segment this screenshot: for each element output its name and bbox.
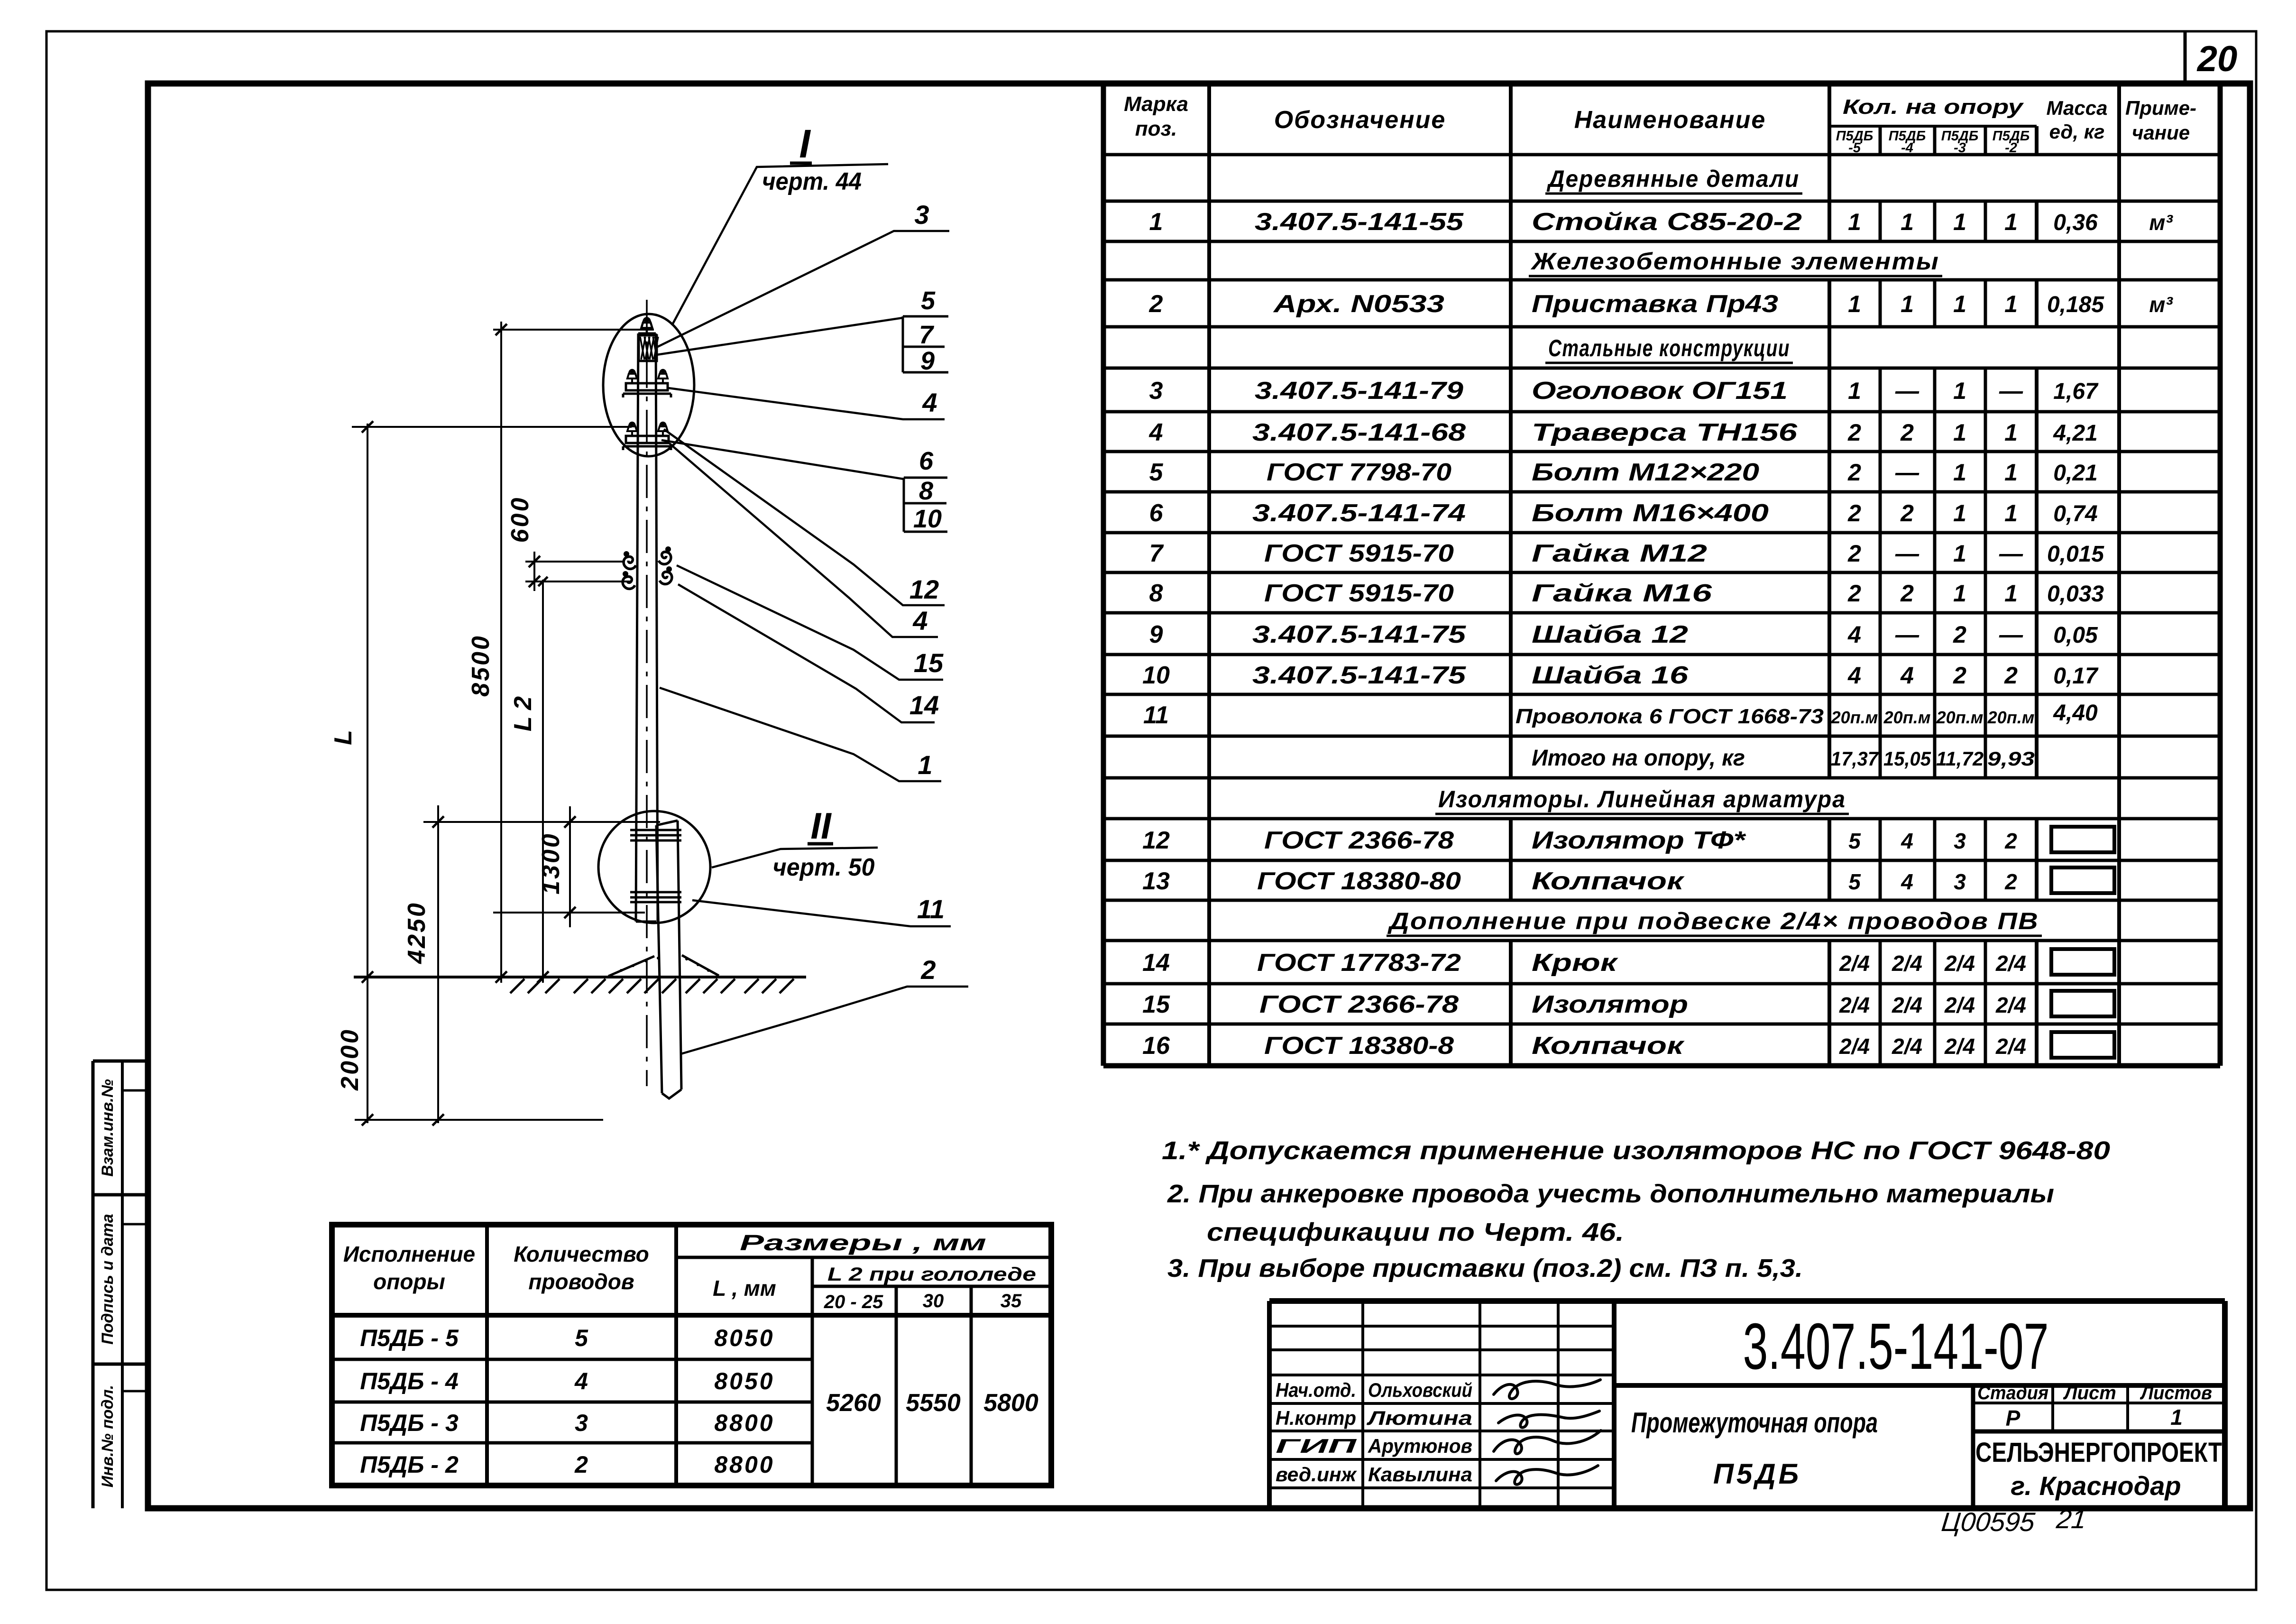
spec table rows 12-16 with blank mass boxes xyxy=(1142,827,2114,1060)
svg-text:5: 5 xyxy=(575,1325,588,1351)
svg-text:35: 35 xyxy=(1001,1291,1022,1311)
svg-text:Лист: Лист xyxy=(2063,1383,2116,1403)
dim text 8500 xyxy=(467,634,495,697)
svg-text:3.407.5-141-07: 3.407.5-141-07 xyxy=(1743,1310,2049,1383)
svg-text:9: 9 xyxy=(1149,621,1163,648)
svg-text:12: 12 xyxy=(1142,827,1170,854)
svg-text:4: 4 xyxy=(1901,829,1913,853)
svg-text:Гайка М12: Гайка М12 xyxy=(1532,540,1707,567)
dim vertical L / 2000 line xyxy=(362,421,373,1126)
svg-text:2: 2 xyxy=(920,955,936,985)
svg-text:1: 1 xyxy=(2004,580,2018,607)
svg-text:Стадия: Стадия xyxy=(1977,1383,2048,1403)
svg-text:Наименование: Наименование xyxy=(1574,106,1766,134)
page number box 20 xyxy=(2185,31,2237,83)
svg-text:Исполнение: Исполнение xyxy=(343,1242,475,1266)
svg-text:8050: 8050 xyxy=(714,1325,774,1351)
svg-text:Колпачок: Колпачок xyxy=(1532,867,1685,895)
svg-text:Траверса ТН156: Траверса ТН156 xyxy=(1532,419,1798,446)
svg-text:L: L xyxy=(330,730,357,745)
svg-text:2: 2 xyxy=(1953,621,1966,648)
крюк с изолятором (верхний правый) poz.14/15 xyxy=(659,546,671,564)
label 2 приставка xyxy=(681,955,968,1054)
svg-text:—: — xyxy=(1895,540,1919,567)
svg-text:8050: 8050 xyxy=(714,1368,774,1394)
svg-text:1: 1 xyxy=(1953,378,1966,404)
svg-text:Стойка С85-20-2: Стойка С85-20-2 xyxy=(1532,208,1802,236)
svg-text:12: 12 xyxy=(909,574,939,604)
svg-text:20п.м: 20п.м xyxy=(1987,708,2035,727)
svg-text:Изолятор: Изолятор xyxy=(1532,991,1688,1018)
svg-text:8: 8 xyxy=(1149,580,1163,607)
svg-text:2: 2 xyxy=(1953,662,1966,689)
СЕЛЬЭНЕРГОПРОЕКТ г. Краснодар xyxy=(1975,1437,2222,1501)
dim vertical L2 xyxy=(537,577,549,983)
svg-text:2/4: 2/4 xyxy=(1944,1034,1975,1059)
svg-text:Болт М16×400: Болт М16×400 xyxy=(1532,499,1769,527)
svg-text:ГОСТ 5915-70: ГОСТ 5915-70 xyxy=(1264,540,1454,567)
svg-text:5: 5 xyxy=(1848,869,1861,894)
pole centerline xyxy=(646,300,648,1086)
svg-text:L 2: L 2 xyxy=(509,696,537,731)
extension line lower hooks xyxy=(525,581,631,582)
svg-text:2/4: 2/4 xyxy=(1839,993,1870,1017)
svg-text:3: 3 xyxy=(575,1410,588,1436)
label 4 траверса нижняя xyxy=(670,443,938,637)
svg-text:2: 2 xyxy=(1900,580,1914,607)
svg-text:Приме-: Приме- xyxy=(2125,97,2196,119)
svg-text:Нач.отд.: Нач.отд. xyxy=(1276,1379,1356,1401)
svg-text:4: 4 xyxy=(1847,621,1861,648)
svg-text:Размеры , мм: Размеры , мм xyxy=(740,1230,986,1255)
svg-text:13: 13 xyxy=(1142,867,1170,895)
svg-text:4: 4 xyxy=(574,1368,588,1394)
svg-text:1: 1 xyxy=(2004,459,2018,486)
svg-text:7: 7 xyxy=(1149,540,1164,567)
label 14 крюк xyxy=(678,584,939,722)
svg-text:2/4: 2/4 xyxy=(1944,951,1975,976)
svg-text:14: 14 xyxy=(1142,949,1170,977)
extension line lower bandage xyxy=(493,912,645,913)
svg-text:9: 9 xyxy=(920,347,935,375)
svg-text:1: 1 xyxy=(2004,500,2018,526)
small table Исполнение опоры xyxy=(332,1225,1051,1486)
изоляторы на верхней траверсе poz.12 xyxy=(627,369,668,384)
document number 3.407.5-141-07 xyxy=(1614,1310,2225,1385)
svg-text:проводов: проводов xyxy=(528,1269,634,1294)
svg-text:5800: 5800 xyxy=(983,1389,1038,1417)
svg-text:спецификации по Черт. 46.: спецификации по Черт. 46. xyxy=(1207,1218,1624,1246)
detail oval I around pole top xyxy=(603,314,694,456)
svg-text:8: 8 xyxy=(919,477,933,505)
ground line xyxy=(354,976,806,978)
svg-text:черт. 44: черт. 44 xyxy=(762,168,862,195)
svg-text:14: 14 xyxy=(909,690,939,720)
svg-text:г. Краснодар: г. Краснодар xyxy=(2011,1471,2181,1501)
траверса ТН156 верхняя poz.4 xyxy=(623,383,671,397)
svg-text:Арутюнов: Арутюнов xyxy=(1368,1435,1472,1457)
svg-text:2: 2 xyxy=(1900,500,1914,526)
svg-text:поз.: поз. xyxy=(1135,117,1177,140)
svg-text:2/4: 2/4 xyxy=(1995,993,2026,1017)
svg-text:II: II xyxy=(810,805,832,847)
extension line pole top xyxy=(493,329,654,331)
svg-text:ГОСТ 2366-78: ГОСТ 2366-78 xyxy=(1259,991,1459,1018)
бандажи из проволоки poz.11 xyxy=(630,830,681,902)
svg-text:1: 1 xyxy=(1953,291,1966,317)
dim text L xyxy=(330,730,357,745)
left stamp column boxes xyxy=(93,1061,148,1508)
svg-text:Инв.№ подл.: Инв.№ подл. xyxy=(99,1385,117,1488)
svg-text:Гайка М16: Гайка М16 xyxy=(1532,580,1713,607)
svg-text:600: 600 xyxy=(506,496,534,543)
svg-text:1: 1 xyxy=(1848,209,1861,235)
svg-text:2000: 2000 xyxy=(336,1028,364,1091)
dim vertical 4250 xyxy=(432,805,444,1126)
svg-text:10: 10 xyxy=(913,505,942,533)
spec итого row xyxy=(1532,746,2035,771)
svg-text:м³: м³ xyxy=(2149,210,2173,235)
title block outline xyxy=(1269,1301,2225,1508)
svg-text:20п.м: 20п.м xyxy=(1936,708,1984,727)
dim vertical 8500 xyxy=(496,322,507,983)
extension line pole butt xyxy=(355,1119,603,1121)
svg-text:Ц00595: Ц00595 xyxy=(1940,1507,2037,1537)
svg-text:0,17: 0,17 xyxy=(2053,664,2099,689)
приставка (железобетонная) poz.2 xyxy=(656,821,681,1098)
svg-text:Стальные конструкции: Стальные конструкции xyxy=(1548,335,1790,361)
small table texts xyxy=(343,1230,1038,1478)
svg-text:Оголовок ОГ151: Оголовок ОГ151 xyxy=(1532,377,1788,405)
svg-text:8800: 8800 xyxy=(714,1410,774,1436)
svg-text:ГОСТ 2366-78: ГОСТ 2366-78 xyxy=(1264,827,1454,854)
svg-text:СЕЛЬЭНЕРГОПРОЕКТ: СЕЛЬЭНЕРГОПРОЕКТ xyxy=(1975,1437,2222,1468)
label 1 стойка xyxy=(660,688,941,781)
svg-text:4,21: 4,21 xyxy=(2053,421,2097,446)
svg-text:1: 1 xyxy=(1848,291,1861,317)
ground hatching xyxy=(510,979,794,993)
svg-text:1: 1 xyxy=(2004,419,2018,446)
svg-text:1: 1 xyxy=(1848,378,1861,404)
svg-text:4: 4 xyxy=(1901,869,1913,894)
section titles xyxy=(1545,166,1802,194)
svg-text:2/4: 2/4 xyxy=(1839,951,1870,976)
svg-text:2: 2 xyxy=(2004,829,2017,853)
svg-text:ГОСТ 18380-8: ГОСТ 18380-8 xyxy=(1264,1032,1454,1060)
dim vertical 1300 xyxy=(564,806,576,927)
svg-text:П5ДБ - 3: П5ДБ - 3 xyxy=(360,1410,459,1436)
svg-text:5: 5 xyxy=(1848,829,1861,853)
svg-text:1: 1 xyxy=(918,750,932,780)
svg-text:4,40: 4,40 xyxy=(2053,701,2098,726)
svg-text:3: 3 xyxy=(1954,869,1966,894)
svg-text:0,36: 0,36 xyxy=(2053,210,2098,235)
svg-text:Кол. на опору: Кол. на опору xyxy=(1843,95,2024,119)
svg-text:Марка: Марка xyxy=(1124,92,1188,116)
stamp label Взам.инв.№ xyxy=(99,1079,117,1177)
svg-text:Шайба 12: Шайба 12 xyxy=(1532,621,1688,648)
svg-text:1: 1 xyxy=(1953,419,1966,446)
svg-text:-3: -3 xyxy=(1954,140,1966,156)
svg-text:20п.м: 20п.м xyxy=(1831,708,1878,727)
svg-text:Промежуточная опора: Промежуточная опора xyxy=(1631,1407,1878,1439)
svg-text:3. При выборе приставки (поз.: 3. При выборе приставки (поз.2) см. ПЗ п… xyxy=(1167,1254,1803,1283)
dim text 4250 xyxy=(403,901,431,964)
svg-text:Изолятор ТФ*: Изолятор ТФ* xyxy=(1532,827,1746,854)
stamp label Инв.№ подл. xyxy=(99,1385,117,1488)
svg-text:1: 1 xyxy=(1901,209,1914,235)
svg-text:3.407.5-141-68: 3.407.5-141-68 xyxy=(1252,419,1466,446)
svg-text:2: 2 xyxy=(2004,869,2017,894)
svg-text:Н.контр: Н.контр xyxy=(1276,1407,1356,1429)
крюк с изолятором (нижний левый) poz.14/15 xyxy=(623,571,635,589)
стадия лист листов grid xyxy=(1973,1383,2225,1508)
svg-text:1: 1 xyxy=(2004,291,2018,317)
траверса ТН156 нижняя poz.4 xyxy=(623,436,671,450)
labels 6 8 10 болт гайка шайба М16 xyxy=(661,440,947,533)
svg-text:0,21: 0,21 xyxy=(2053,461,2097,486)
svg-text:П5ДБ: П5ДБ xyxy=(1713,1458,1801,1490)
svg-text:Крюк: Крюк xyxy=(1532,949,1619,977)
svg-text:7: 7 xyxy=(919,321,935,349)
svg-text:8800: 8800 xyxy=(714,1451,774,1478)
svg-text:ГОСТ 5915-70: ГОСТ 5915-70 xyxy=(1264,580,1454,607)
svg-text:1: 1 xyxy=(2170,1405,2183,1430)
svg-text:Количество: Количество xyxy=(514,1242,649,1266)
spec table rows 1-10 xyxy=(1142,208,2173,689)
svg-text:2: 2 xyxy=(1847,500,1861,526)
svg-text:20 - 25: 20 - 25 xyxy=(824,1292,883,1312)
svg-text:—: — xyxy=(1999,621,2023,648)
svg-text:черт. 50: черт. 50 xyxy=(773,854,875,881)
svg-text:Итого на опору, кг: Итого на опору, кг xyxy=(1532,746,1745,771)
svg-text:Лютина: Лютина xyxy=(1366,1407,1472,1429)
svg-text:11: 11 xyxy=(1143,701,1169,729)
svg-text:3: 3 xyxy=(914,200,929,230)
svg-text:чание: чание xyxy=(2132,121,2190,144)
svg-text:1: 1 xyxy=(2004,209,2018,235)
svg-text:Приставка Пр43: Приставка Пр43 xyxy=(1532,290,1778,318)
svg-text:опоры: опоры xyxy=(373,1269,445,1294)
svg-text:Деревянные детали: Деревянные детали xyxy=(1546,166,1800,192)
svg-text:Изоляторы. Линейная арматура: Изоляторы. Линейная арматура xyxy=(1438,786,1846,812)
svg-text:2: 2 xyxy=(1847,540,1861,567)
svg-text:2/4: 2/4 xyxy=(1892,951,1922,976)
svg-text:4: 4 xyxy=(1149,419,1163,446)
svg-text:2/4: 2/4 xyxy=(1995,951,2026,976)
detail label I черт.44 xyxy=(672,121,888,325)
svg-text:4: 4 xyxy=(1900,662,1914,689)
svg-text:6: 6 xyxy=(919,447,934,475)
svg-text:Шайба 16: Шайба 16 xyxy=(1532,662,1689,689)
svg-text:Масса: Масса xyxy=(2047,97,2108,119)
dim vertical 600 xyxy=(529,552,540,591)
mound around pole xyxy=(608,955,719,976)
svg-text:2: 2 xyxy=(1149,290,1163,318)
svg-text:L 2 при гололеде: L 2 при гололеде xyxy=(827,1264,1036,1285)
svg-text:Взам.инв.№: Взам.инв.№ xyxy=(99,1079,117,1177)
svg-text:2: 2 xyxy=(2004,662,2018,689)
svg-text:1: 1 xyxy=(1953,209,1966,235)
extension line upper bandage xyxy=(423,821,660,823)
svg-text:9,93: 9,93 xyxy=(1987,747,2035,770)
spec row 11 проволока xyxy=(1143,701,2098,729)
svg-text:30: 30 xyxy=(923,1291,944,1311)
svg-text:3: 3 xyxy=(1149,377,1163,405)
svg-text:—: — xyxy=(1895,621,1919,648)
оголовок ОГ151 poz.3 (hatched cap) xyxy=(639,335,658,361)
svg-text:10: 10 xyxy=(1142,662,1170,689)
svg-text:2/4: 2/4 xyxy=(1892,1034,1922,1059)
label 11 бандаж проволока xyxy=(692,894,951,926)
label 12 изолятор xyxy=(664,429,945,605)
svg-text:4: 4 xyxy=(1847,662,1861,689)
svg-text:Листов: Листов xyxy=(2140,1383,2212,1403)
svg-text:Обозначение: Обозначение xyxy=(1274,106,1446,134)
signature names xyxy=(1276,1379,1472,1486)
svg-text:3.407.5-141-75: 3.407.5-141-75 xyxy=(1252,662,1466,689)
svg-text:2/4: 2/4 xyxy=(1839,1034,1870,1059)
svg-text:I: I xyxy=(799,121,811,166)
svg-text:15: 15 xyxy=(914,648,944,678)
label 3 оголовок xyxy=(656,200,949,348)
svg-text:1: 1 xyxy=(1953,500,1966,526)
svg-text:15,05: 15,05 xyxy=(1883,747,1931,770)
svg-text:16: 16 xyxy=(1142,1032,1170,1060)
svg-text:0,74: 0,74 xyxy=(2053,501,2097,526)
svg-text:ГОСТ 17783-72: ГОСТ 17783-72 xyxy=(1257,949,1461,977)
svg-text:Железобетонные элементы: Железобетонные элементы xyxy=(1530,248,1939,275)
svg-text:Ольховский: Ольховский xyxy=(1368,1379,1472,1401)
svg-text:1: 1 xyxy=(1149,208,1163,236)
svg-text:ГИП: ГИП xyxy=(1276,1435,1357,1457)
верхушечный изолятор poz.12 xyxy=(642,317,652,333)
svg-text:-4: -4 xyxy=(1901,140,1913,156)
signatures (handwritten squiggles) xyxy=(1494,1380,1601,1485)
dim text 2000 xyxy=(336,1028,364,1091)
svg-text:2: 2 xyxy=(1847,419,1861,446)
svg-text:Кавылина: Кавылина xyxy=(1368,1463,1472,1486)
svg-text:3.407.5-141-79: 3.407.5-141-79 xyxy=(1255,377,1463,405)
svg-text:м³: м³ xyxy=(2149,292,2173,317)
svg-text:20: 20 xyxy=(2196,39,2238,79)
svg-text:Болт М12×220: Болт М12×220 xyxy=(1532,459,1759,486)
svg-text:1.* Допускается применение и: 1.* Допускается применение изоляторов НС… xyxy=(1162,1136,2110,1165)
svg-text:Проволока 6 ГОСТ 1668-73: Проволока 6 ГОСТ 1668-73 xyxy=(1515,705,1824,728)
dim text L2 xyxy=(509,696,537,731)
svg-text:11,72: 11,72 xyxy=(1936,747,1984,770)
svg-text:4: 4 xyxy=(922,388,937,417)
svg-text:2: 2 xyxy=(574,1451,588,1478)
svg-text:-2: -2 xyxy=(2005,140,2017,156)
detail circle II around joint xyxy=(598,811,710,923)
svg-text:—: — xyxy=(1999,378,2023,404)
svg-text:21: 21 xyxy=(2055,1504,2088,1534)
крюк с изолятором (верхний левый) poz.14/15 xyxy=(624,551,636,569)
svg-text:4250: 4250 xyxy=(403,901,431,964)
svg-text:1: 1 xyxy=(1953,540,1966,567)
detail label II черт.50 xyxy=(712,805,878,881)
svg-text:0,05: 0,05 xyxy=(2053,623,2098,648)
svg-text:—: — xyxy=(1895,459,1919,486)
крюк с изолятором (нижний правый) poz.14/15 xyxy=(660,566,672,584)
handwritten Ц00595 21 xyxy=(1940,1504,2088,1537)
svg-text:2: 2 xyxy=(1900,419,1914,446)
svg-text:0,033: 0,033 xyxy=(2047,581,2104,607)
svg-text:3.407.5-141-75: 3.407.5-141-75 xyxy=(1252,621,1466,648)
svg-text:5260: 5260 xyxy=(826,1389,881,1417)
svg-text:3.407.5-141-55: 3.407.5-141-55 xyxy=(1255,208,1464,236)
svg-text:6: 6 xyxy=(1149,499,1164,527)
svg-text:0,185: 0,185 xyxy=(2047,292,2104,317)
specification table grid xyxy=(1103,83,2220,1066)
dim text 1300 xyxy=(537,832,565,895)
extension line upper hooks xyxy=(525,561,624,563)
svg-text:Подпись и дата: Подпись и дата xyxy=(99,1214,117,1345)
svg-text:П5ДБ - 5: П5ДБ - 5 xyxy=(360,1325,459,1351)
svg-text:2/4: 2/4 xyxy=(1892,993,1922,1017)
svg-text:4: 4 xyxy=(912,606,928,636)
svg-text:5: 5 xyxy=(1149,459,1164,486)
title Промежуточная опора П5ДБ xyxy=(1631,1407,1878,1490)
svg-text:3: 3 xyxy=(1954,829,1966,853)
svg-text:3.407.5-141-74: 3.407.5-141-74 xyxy=(1252,499,1466,527)
svg-text:5: 5 xyxy=(921,286,936,315)
svg-text:15: 15 xyxy=(1142,991,1170,1018)
svg-text:П5ДБ - 4: П5ДБ - 4 xyxy=(360,1368,459,1394)
svg-text:—: — xyxy=(1895,378,1919,404)
dim text 600 xyxy=(506,496,534,543)
svg-text:2. При анкеровке провода уче: 2. При анкеровке провода учесть дополнит… xyxy=(1167,1180,2054,1208)
svg-text:11: 11 xyxy=(917,894,945,924)
svg-text:П5ДБ - 2: П5ДБ - 2 xyxy=(360,1451,459,1478)
svg-text:5550: 5550 xyxy=(906,1389,961,1417)
svg-text:2/4: 2/4 xyxy=(1944,993,1975,1017)
svg-text:1: 1 xyxy=(1953,580,1966,607)
svg-text:17,37: 17,37 xyxy=(1831,747,1879,770)
svg-text:Дополнение при подвеске 2/4×: Дополнение при подвеске 2/4× проводов ПВ xyxy=(1387,908,2039,934)
labels 5 7 9 болт гайка шайба М12 xyxy=(657,286,948,375)
svg-text:8500: 8500 xyxy=(467,634,495,697)
svg-text:вед.инж: вед.инж xyxy=(1276,1463,1357,1486)
svg-text:1: 1 xyxy=(1953,459,1966,486)
svg-text:—: — xyxy=(1999,540,2023,567)
svg-text:Арх. N0533: Арх. N0533 xyxy=(1272,290,1444,318)
svg-text:20п.м: 20п.м xyxy=(1883,708,1931,727)
svg-text:ед, кг: ед, кг xyxy=(2049,120,2105,143)
svg-text:1300: 1300 xyxy=(537,832,565,895)
svg-text:2: 2 xyxy=(1847,459,1861,486)
svg-text:ГОСТ 7798-70: ГОСТ 7798-70 xyxy=(1267,459,1451,486)
svg-text:Колпачок: Колпачок xyxy=(1532,1032,1685,1060)
изоляторы на нижней траверсе poz.12 xyxy=(627,422,668,436)
svg-text:Р: Р xyxy=(2006,1406,2020,1430)
notes text xyxy=(1162,1136,2110,1283)
svg-text:0,015: 0,015 xyxy=(2047,542,2104,567)
signature table grid xyxy=(1269,1301,1614,1508)
svg-text:2: 2 xyxy=(1847,580,1861,607)
svg-text:1,67: 1,67 xyxy=(2053,379,2099,404)
extension line lower traverse xyxy=(352,426,632,428)
svg-text:L , мм: L , мм xyxy=(713,1276,776,1301)
стойка (деревянная) poz.1 xyxy=(636,333,658,922)
svg-text:-5: -5 xyxy=(1848,140,1861,156)
svg-text:ГОСТ 18380-80: ГОСТ 18380-80 xyxy=(1257,867,1461,895)
spec table header texts xyxy=(1124,92,2196,156)
svg-text:2/4: 2/4 xyxy=(1995,1034,2026,1059)
label 4 траверса верхняя xyxy=(668,388,945,419)
label 15 изолятор на крюке xyxy=(677,565,944,680)
